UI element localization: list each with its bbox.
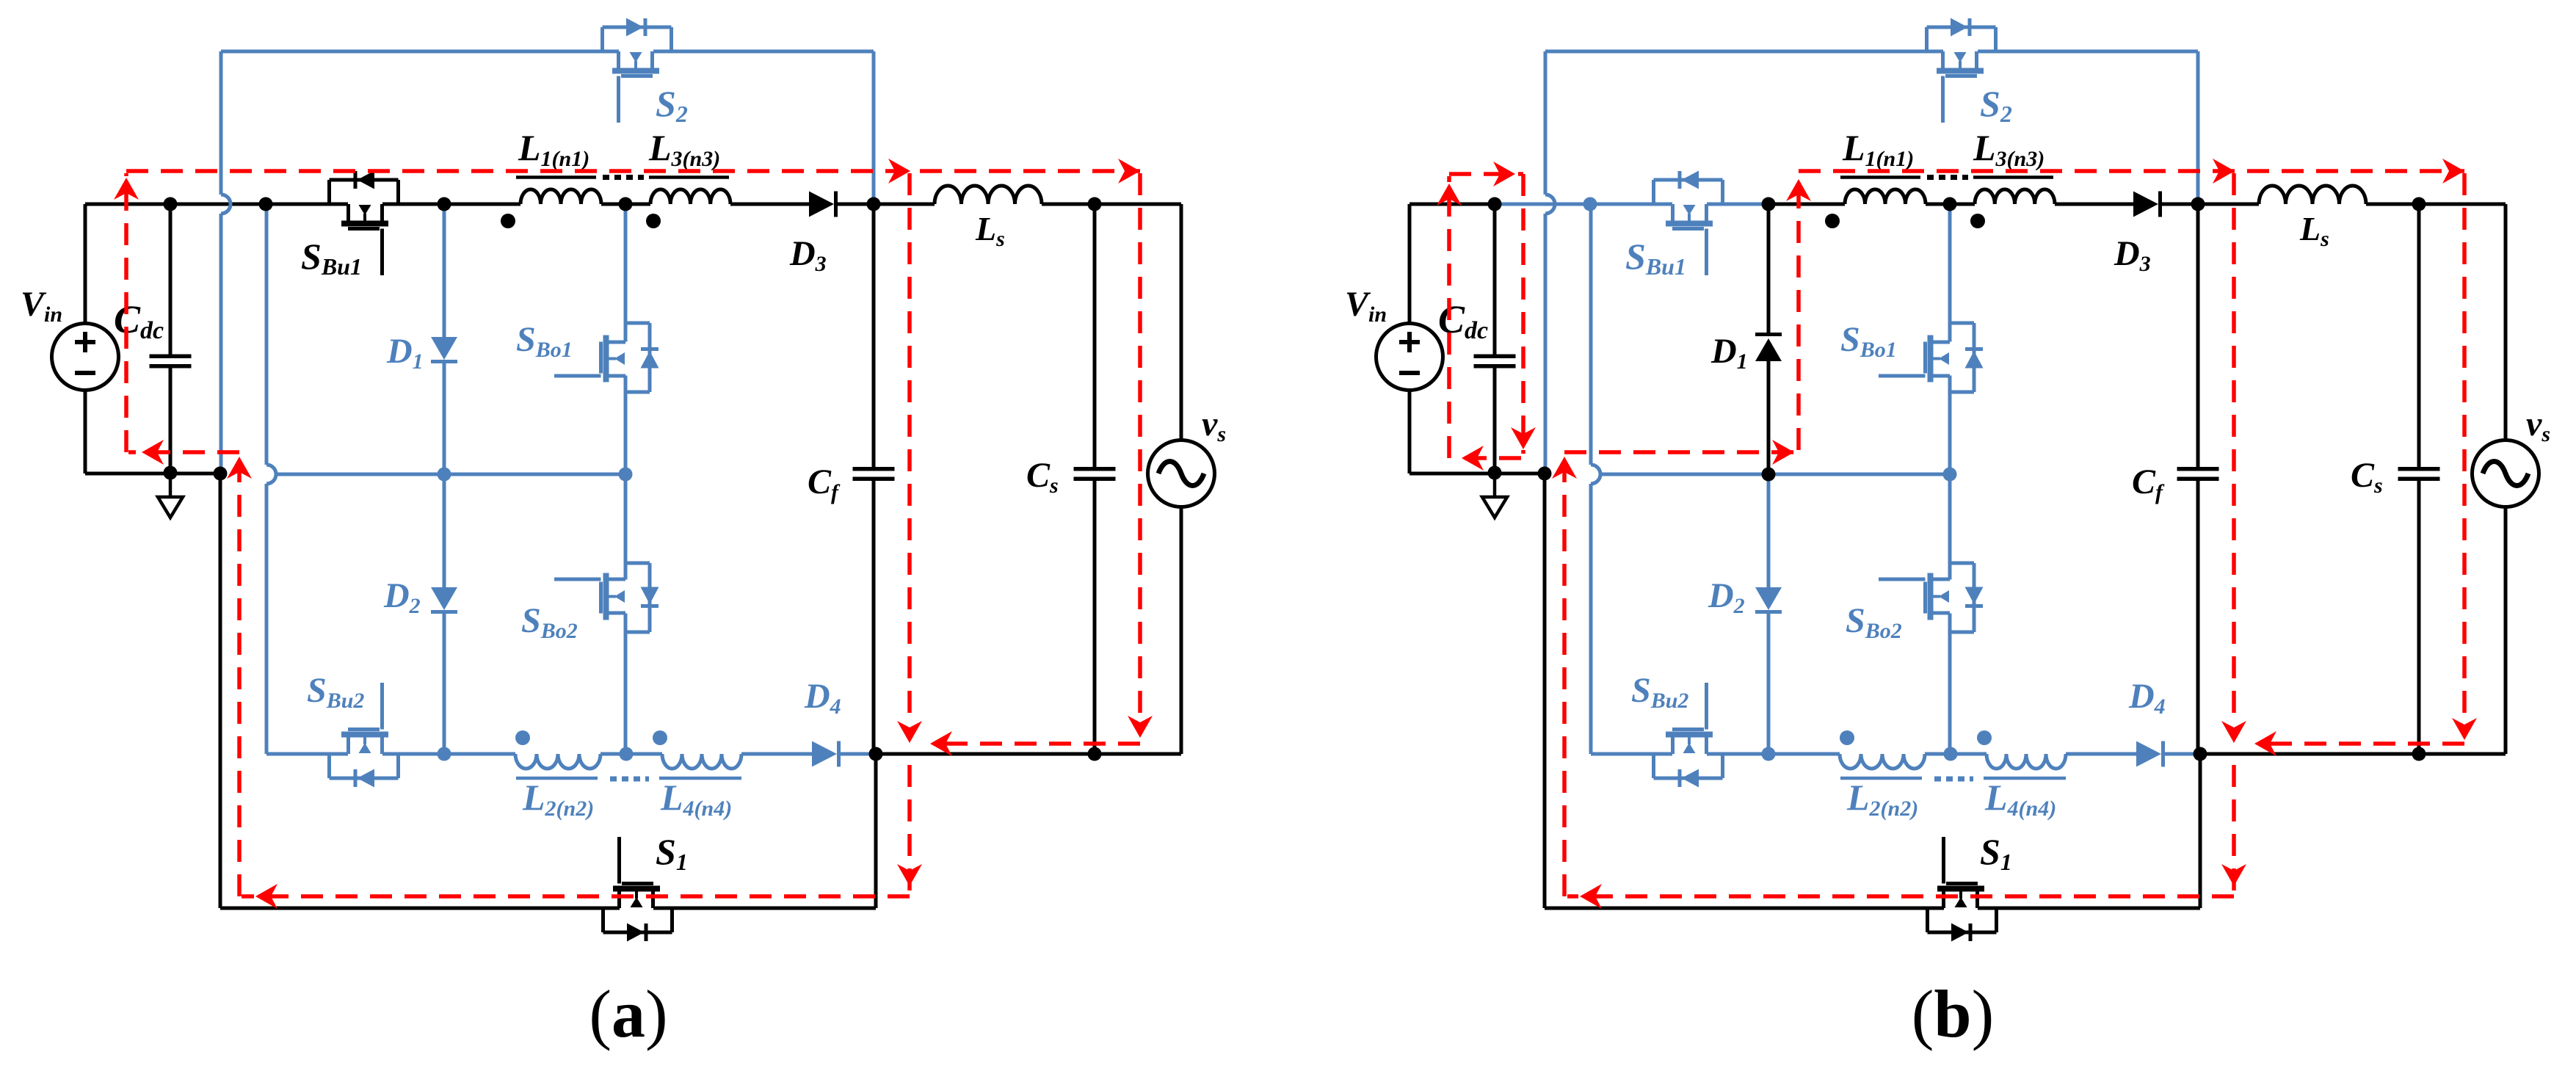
svg-text:(b): (b) bbox=[1912, 976, 1994, 1051]
svg-text:(a): (a) bbox=[589, 976, 667, 1051]
